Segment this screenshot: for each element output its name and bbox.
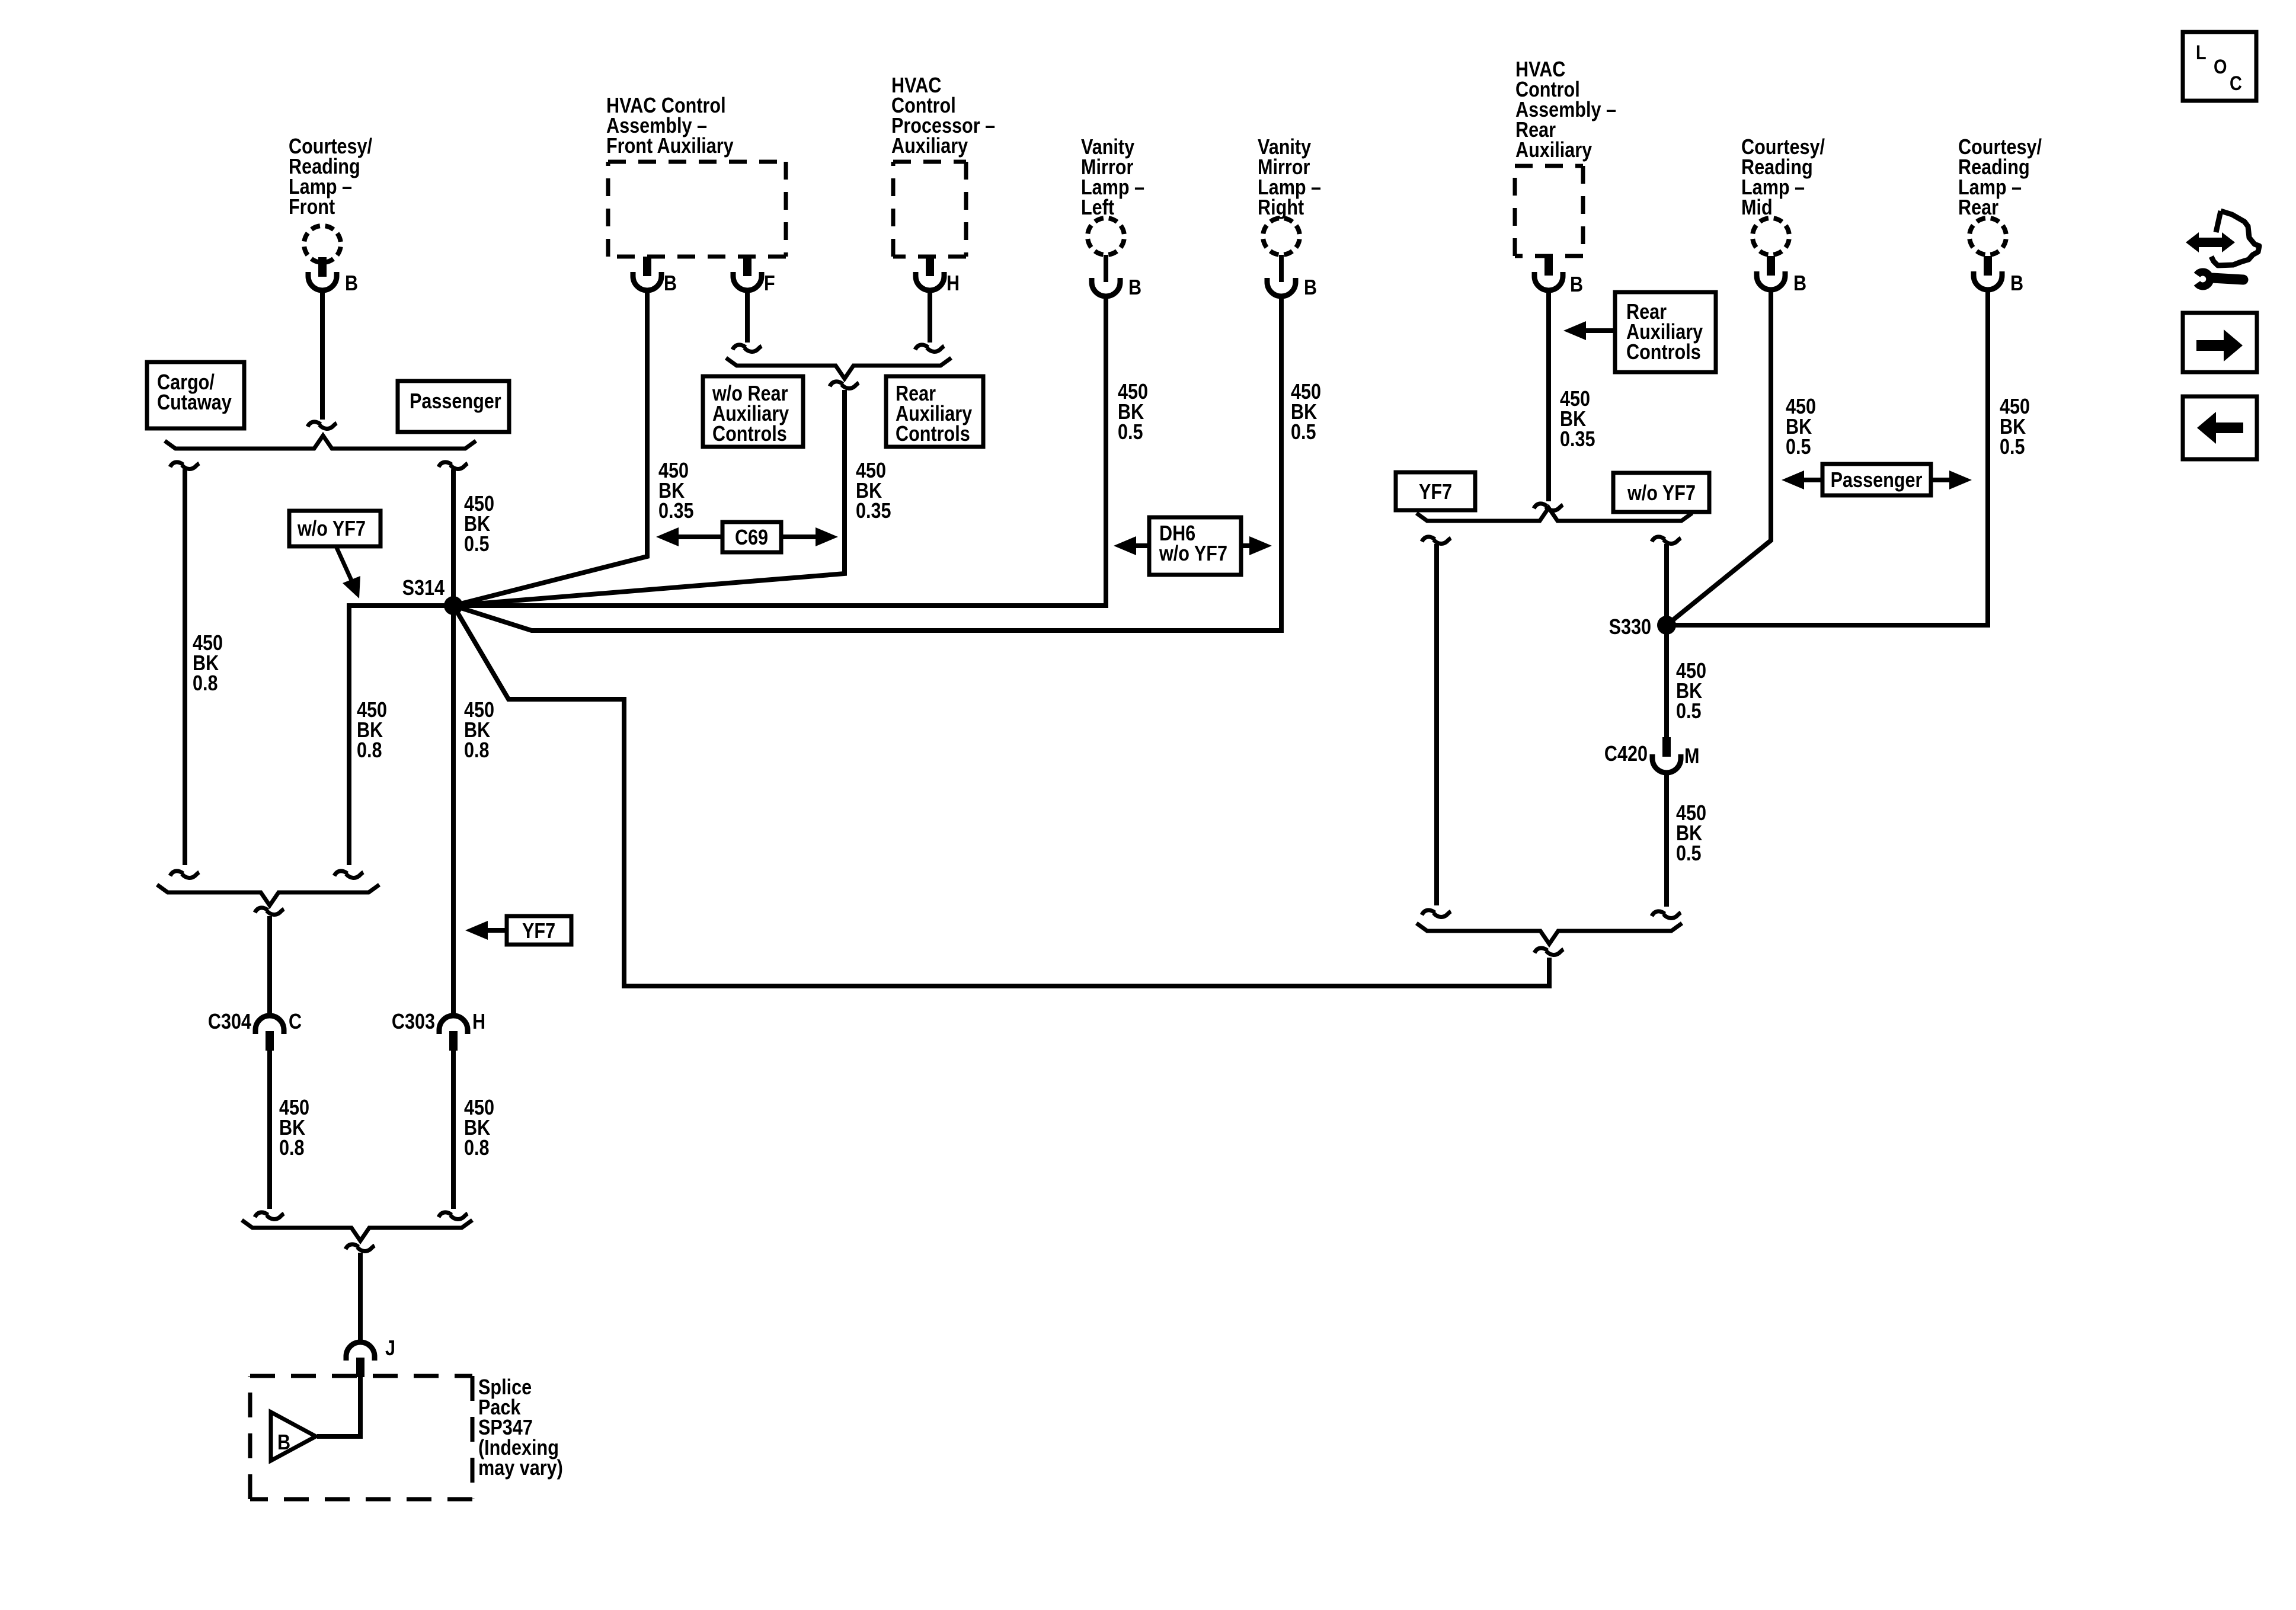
connector pin stub at lamp Front xyxy=(318,257,327,277)
connector B (lamp Mid) xyxy=(1757,271,1785,290)
box Rear Auxiliary Controls (right) xyxy=(1615,292,1716,372)
connector pin stub C420 xyxy=(1662,737,1671,757)
HVAC Control Assembly Rear Auxiliary dashed box xyxy=(1515,166,1583,256)
svg-text:B: B xyxy=(1128,276,1141,300)
wire S314 down to C303 xyxy=(451,606,456,1017)
svg-text:B: B xyxy=(2010,272,2023,296)
svg-text:O: O xyxy=(2214,55,2227,78)
connector B (lamp Rear) xyxy=(1974,271,2002,290)
wire break curl below F/H brace xyxy=(830,382,859,389)
connector pin stub H (HVAC processor) xyxy=(926,257,934,276)
wire break curl top of w/o YF7 branch xyxy=(1652,537,1681,544)
svg-text:YF7: YF7 xyxy=(1419,481,1452,504)
svg-text:L: L xyxy=(2196,41,2207,64)
arrow DH6 to vanity right wire xyxy=(1241,543,1251,548)
connector J dome xyxy=(346,1342,375,1361)
arrow Passenger to mid lamp wire xyxy=(1803,478,1822,482)
wire lamp Mid down diagonal to S330 xyxy=(1667,290,1771,625)
wire YF7 branch down xyxy=(1434,544,1439,905)
svg-text:C69: C69 xyxy=(735,526,768,550)
svg-text:S330: S330 xyxy=(1609,616,1651,639)
svg-text:Passenger: Passenger xyxy=(410,390,501,414)
wire break curl bottom (C304 wire) xyxy=(255,1212,284,1219)
brace splitting Front lamp wire into Cargo/Cutaway and Passenger branches xyxy=(165,436,476,449)
svg-text:M: M xyxy=(1684,745,1699,769)
splice pack SP347 dashed box xyxy=(250,1376,472,1499)
svg-text:B: B xyxy=(1793,272,1806,296)
wire S314 long route to rear combining brace xyxy=(453,606,1549,986)
box C69 xyxy=(722,522,781,552)
svg-text:B: B xyxy=(664,272,677,296)
connector M (C420) xyxy=(1652,754,1681,773)
svg-text:B: B xyxy=(1304,276,1317,300)
wire break curl top of YF7 branch xyxy=(1422,537,1451,544)
splice node S330 xyxy=(1657,616,1676,635)
svg-text:J: J xyxy=(385,1337,395,1361)
wire HVAC rear aux B down xyxy=(1546,290,1551,501)
box Passenger xyxy=(398,381,509,432)
wire S330 down to C420 xyxy=(1664,625,1669,737)
wire break curl bottom (C303 wire) xyxy=(439,1212,468,1219)
lamp Courtesy/Reading Rear (dashed circle) xyxy=(1969,218,2006,255)
wire HVAC front aux F down xyxy=(745,290,750,343)
wire break curl below C304/C303 brace xyxy=(346,1244,375,1251)
wire F/H combined down and diagonal to S314 xyxy=(453,390,845,606)
brace combining F and H wires xyxy=(726,358,951,379)
box YF7 (right) xyxy=(1396,472,1475,510)
connector pin stub F (HVAC front aux) xyxy=(743,257,752,276)
wire lamp Front to brace xyxy=(320,290,325,420)
wire vanity left down to S314 horizontal xyxy=(453,296,1106,606)
wire break curl above brace (lamp Front wire) xyxy=(308,422,337,429)
connector pin stub at lamp Mid xyxy=(1767,256,1775,276)
wire vanity right lamp to connector xyxy=(1279,255,1284,282)
connector pin stub J xyxy=(356,1358,364,1377)
connector H (HVAC processor) xyxy=(916,272,944,290)
wire break curl above YF7 brace xyxy=(1534,504,1563,511)
wire Cargo/Cutaway branch xyxy=(183,469,187,865)
legend adjust icon wrench xyxy=(2197,272,2210,286)
box w/o YF7 (right) xyxy=(1613,473,1709,512)
wire HVAC processor H down xyxy=(928,290,932,343)
lamp Courtesy/Reading Front (dashed circle) xyxy=(304,226,341,263)
wire break curl bottom of YF7 branch xyxy=(1422,910,1451,917)
brace splitting rear aux wire into YF7 and w/o YF7 branches xyxy=(1416,508,1692,521)
legend next-page arrow box xyxy=(2183,313,2257,372)
wire break curl bottom of w/o YF7 branch lower xyxy=(1652,911,1681,918)
legend adjust icon outline xyxy=(2211,211,2259,265)
connector B (vanity left) xyxy=(1092,278,1120,296)
svg-text:H: H xyxy=(472,1010,485,1034)
connector B (vanity right) xyxy=(1267,278,1296,296)
connector B (HVAC front aux) xyxy=(633,272,661,290)
svg-text:w/o YF7: w/o YF7 xyxy=(297,517,366,541)
svg-text:C: C xyxy=(289,1010,302,1034)
legend next-page arrow xyxy=(2196,340,2224,351)
wire break curl below combining brace xyxy=(255,908,284,915)
lamp Courtesy/Reading Mid (dashed circle) xyxy=(1753,218,1789,255)
wire break curl below H wire xyxy=(915,345,944,352)
svg-text:w/o YF7: w/o YF7 xyxy=(1627,482,1696,505)
wire vanity left lamp to connector xyxy=(1104,255,1108,282)
connector pin stub C303 xyxy=(449,1031,458,1051)
arrow Rear Auxiliary Controls to rear aux wire xyxy=(1585,328,1615,333)
wire Passenger branch down to S314 xyxy=(451,469,456,606)
connector F (HVAC front aux) xyxy=(733,272,762,290)
legend LOC box xyxy=(2183,32,2256,101)
svg-text:S314: S314 xyxy=(402,577,445,600)
wire C420 down xyxy=(1664,773,1669,907)
connector pin stub B (HVAC front aux) xyxy=(643,257,651,276)
wire break curl top of Passenger branch xyxy=(439,462,468,469)
legend adjust icon double arrow xyxy=(2196,238,2224,247)
wire vanity right down to S314 diagonal xyxy=(453,296,1281,630)
box Cargo/Cutaway xyxy=(147,362,244,428)
connector B (HVAC rear aux) xyxy=(1534,272,1563,290)
svg-text:C: C xyxy=(2230,72,2242,95)
legend prev-page arrow box xyxy=(2183,396,2257,459)
svg-text:H: H xyxy=(946,272,960,296)
box YF7 (pointing at S314 wire) xyxy=(507,916,571,945)
wire break curl below F wire xyxy=(733,345,762,352)
wire break curl bottom of Cargo branch xyxy=(170,871,199,878)
svg-text:C304: C304 xyxy=(208,1010,252,1034)
svg-text:F: F xyxy=(764,272,775,296)
box DH6 w/o YF7 xyxy=(1149,517,1241,575)
wire combined branch down to C304 xyxy=(267,916,272,1017)
lamp Vanity Mirror Right (dashed circle) xyxy=(1263,218,1300,255)
wire HVAC front aux B down and diagonal to S314 xyxy=(453,290,647,606)
wire J into splice pack xyxy=(317,1376,360,1436)
wire break curl top of Cargo branch xyxy=(170,462,199,469)
brace combining Cargo and w/o YF7 branches xyxy=(157,885,379,905)
svg-text:B: B xyxy=(277,1431,290,1455)
brace combining C304 and C303 wires xyxy=(242,1220,472,1241)
arrow YF7 to S314 wire xyxy=(487,928,507,933)
arrow C69 to right wire xyxy=(781,534,817,539)
legend prev-page arrow xyxy=(2215,422,2243,433)
box Passenger (right) xyxy=(1822,464,1931,495)
svg-text:Passenger: Passenger xyxy=(1831,469,1923,492)
arrow from w/o YF7 box to S314 xyxy=(336,546,353,584)
HVAC Control Assembly Front Auxiliary dashed box xyxy=(608,162,786,257)
wire break curl below rear combining brace xyxy=(1534,948,1563,955)
wire w/o YF7 branch down to S330 xyxy=(1664,544,1669,625)
svg-text:C420: C420 xyxy=(1604,742,1648,766)
lamp Vanity Mirror Left (dashed circle) xyxy=(1088,218,1124,255)
connector C303 dome xyxy=(439,1016,468,1034)
svg-text:C303: C303 xyxy=(392,1010,435,1034)
box Rear Auxiliary Controls (top middle) xyxy=(886,376,983,447)
svg-text:YF7: YF7 xyxy=(522,920,555,943)
arrow DH6 to vanity left wire xyxy=(1135,543,1149,548)
brace combining YF7 and w/o YF7 branches (bottom) xyxy=(1416,923,1682,944)
svg-text:B: B xyxy=(345,272,358,296)
connector C304 dome xyxy=(255,1016,284,1034)
wire C303 down xyxy=(451,1051,456,1209)
wire C304 down xyxy=(267,1051,272,1209)
box w/o Rear Auxiliary Controls xyxy=(703,376,803,447)
wire break curl bottom of w/o YF7 branch xyxy=(334,871,363,878)
svg-text:w/o RearAuxiliaryControls: w/o RearAuxiliaryControls xyxy=(712,382,789,446)
wire down to splice pack J xyxy=(358,1253,363,1345)
splice node S314 xyxy=(444,596,463,615)
wire lamp Rear down to S330 horizontal xyxy=(1667,290,1988,625)
HVAC Control Processor Auxiliary dashed box xyxy=(893,162,966,257)
arrow Passenger to rear lamp wire xyxy=(1931,478,1950,482)
connector pin stub B (HVAC rear aux) xyxy=(1544,256,1553,276)
svg-text:B: B xyxy=(1570,273,1583,297)
box w/o YF7 (at S314) xyxy=(289,511,380,546)
wire S314 horizontal to w/o YF7 branch xyxy=(349,606,453,865)
connector B at lamp Front xyxy=(308,272,337,290)
splice pack bus bar triangle B xyxy=(271,1412,316,1461)
connector pin stub C304 xyxy=(266,1031,274,1051)
arrow C69 to left wire xyxy=(677,534,722,539)
connector pin stub at lamp Rear xyxy=(1984,256,1992,276)
